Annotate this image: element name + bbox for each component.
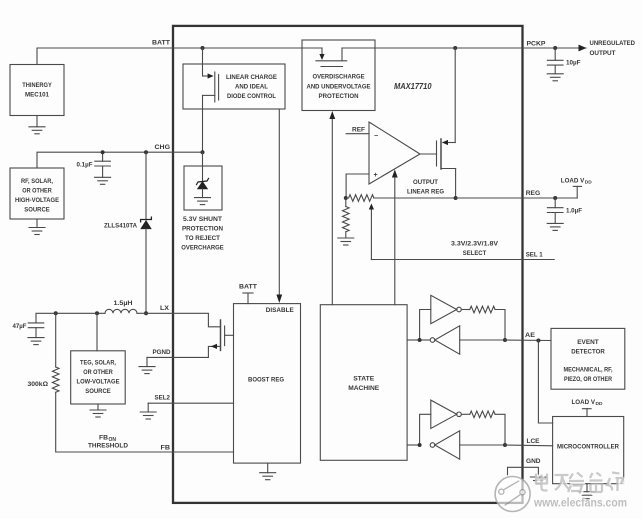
resistor R5 LCE feedback	[470, 411, 495, 418]
resistor R3 divider lower	[343, 207, 350, 232]
node LX-TEG junction	[95, 311, 99, 315]
block OVERDISCHARGE AND UNDERVOLTAGE PROTECTION	[302, 40, 375, 111]
svg-text:THRESHOLD: THRESHOLD	[88, 443, 128, 450]
source RF SOLAR HIGH-VOLTAGE	[10, 168, 64, 219]
svg-text:FB: FB	[99, 435, 108, 442]
node REG source junction	[454, 196, 458, 200]
svg-text:OR OTHER: OR OTHER	[22, 188, 52, 195]
svg-text:TEG, SOLAR,: TEG, SOLAR,	[80, 359, 116, 366]
svg-text:STATE: STATE	[353, 376, 374, 383]
svg-text:PROTECTION: PROTECTION	[319, 93, 359, 100]
wire PGND net	[147, 346, 218, 357]
svg-text:www.elecfans.com: www.elecfans.com	[533, 496, 627, 510]
wire REF input	[346, 133, 369, 135]
resistor R1 300k	[52, 367, 59, 392]
wire LCE net	[505, 444, 553, 447]
ground below R3	[338, 238, 354, 245]
source TEG SOLAR LOW-VOLTAGE	[71, 351, 126, 404]
node AE left junction	[418, 338, 422, 342]
wire state machine to op-amp enable	[392, 170, 398, 305]
svg-text:DD: DD	[596, 401, 603, 407]
svg-text:LOAD V: LOAD V	[561, 177, 585, 184]
wire AE net	[505, 339, 551, 342]
svg-text:OVERCHARGE: OVERCHARGE	[181, 245, 224, 252]
svg-text:SEL 1: SEL 1	[526, 252, 543, 259]
svg-text:LCE: LCE	[527, 438, 540, 445]
capacitor C2 47uF	[28, 323, 44, 328]
svg-text:AND UNDERVOLTAGE: AND UNDERVOLTAGE	[307, 84, 371, 91]
supply stub LOAD VDD at microcontroller	[582, 409, 591, 417]
ground below TEG	[90, 410, 106, 417]
node PCKP cap junction	[553, 46, 557, 50]
svg-text:AE: AE	[525, 332, 535, 339]
svg-text:SELECT: SELECT	[463, 250, 487, 257]
wire boost ground	[267, 463, 269, 473]
wire RF source to ground	[36, 219, 38, 228]
svg-text:47µF: 47µF	[13, 323, 27, 330]
node REG cap junction	[553, 196, 557, 200]
transistor Q3 output pass FET	[420, 48, 456, 198]
svg-text:BOOST REG: BOOST REG	[248, 377, 284, 384]
block 5.3V shunt protection box	[184, 166, 222, 210]
capacitor C3 10uF	[547, 60, 563, 65]
node PCKP drain junction	[453, 46, 457, 50]
svg-text:LINEAR REG: LINEAR REG	[407, 189, 444, 196]
svg-text:ZLLS410TA: ZLLS410TA	[104, 223, 137, 230]
block MICROCONTROLLER	[553, 417, 624, 484]
transistor Q4 boost FET	[173, 313, 234, 350]
ground at PGND	[139, 367, 155, 374]
svg-text:REG: REG	[526, 190, 541, 197]
svg-text:MACHINE: MACHINE	[348, 385, 379, 392]
transistor Q2 overdischarge FET	[302, 48, 375, 67]
svg-text:OR OTHER: OR OTHER	[83, 369, 113, 376]
svg-text:LINEAR CHARGE: LINEAR CHARGE	[226, 74, 277, 81]
wire C2 to ground	[35, 328, 37, 338]
svg-text:5.3V SHUNT: 5.3V SHUNT	[183, 216, 223, 223]
svg-text:0.1µF: 0.1µF	[77, 161, 93, 168]
transistor Q1 ideal diode FET	[203, 48, 219, 152]
ground below RF source	[29, 228, 45, 235]
svg-text:GND: GND	[526, 458, 541, 465]
block BOOST REG	[234, 304, 301, 464]
wire zener cathode	[145, 152, 147, 219]
svg-text:EVENT: EVENT	[577, 339, 599, 346]
svg-text:MEC101: MEC101	[25, 92, 49, 99]
wire PGND stub to ground	[146, 357, 148, 366]
svg-text:LOW-VOLTAGE: LOW-VOLTAGE	[77, 378, 120, 385]
wire REG net outside	[456, 197, 578, 199]
node BATT junction	[201, 46, 205, 50]
resistor R2 feedback pot	[349, 195, 374, 202]
capacitor C1 0.1uF	[95, 161, 111, 166]
wire zener anode to LX	[145, 229, 147, 313]
svg-text:CHG: CHG	[155, 144, 171, 151]
svg-text:1.5µH: 1.5µH	[114, 300, 133, 307]
svg-text:DISABLE: DISABLE	[266, 307, 294, 314]
wire C1 to ground	[102, 166, 104, 177]
wire DISABLE from linear charge	[276, 109, 282, 303]
wire SEL2 net	[148, 402, 233, 404]
svg-text:3.3V/2.3V/1.8V: 3.3V/2.3V/1.8V	[451, 240, 498, 247]
node AE right junction	[503, 338, 507, 342]
svg-text:OVERDISCHARGE: OVERDISCHARGE	[313, 73, 365, 80]
svg-text:MAX17710: MAX17710	[394, 82, 432, 91]
wiper arrow SEL1	[369, 204, 374, 260]
node LCE left junction	[418, 443, 422, 447]
diode D1 ZLLS410TA schottky	[141, 217, 152, 229]
node LX-zener junction	[144, 311, 148, 315]
svg-text:OUTPUT: OUTPUT	[413, 179, 439, 186]
IC outline MAX17710	[173, 26, 523, 503]
svg-text:1.0µF: 1.0µF	[566, 208, 582, 215]
svg-text:−: −	[374, 133, 378, 140]
ground below C3	[547, 74, 563, 81]
svg-text:AND IDEAL: AND IDEAL	[235, 84, 268, 91]
svg-text:FB: FB	[161, 444, 171, 451]
wire PCKP cap stub	[554, 48, 556, 60]
wire AE to microcontroller	[538, 341, 552, 424]
capacitor C1 0.1uF stub	[102, 152, 104, 161]
wire SEL2 stub to ground	[147, 403, 149, 412]
svg-text:SOURCE: SOURCE	[24, 207, 50, 214]
svg-text:LOAD V: LOAD V	[572, 399, 596, 406]
wire plus input	[346, 174, 369, 198]
block EVENT DETECTOR	[551, 328, 625, 389]
block LINEAR CHARGE AND IDEAL DIODE CONTROL	[183, 64, 285, 109]
svg-text:THINERGY: THINERGY	[22, 82, 52, 89]
svg-text:REF: REF	[352, 126, 365, 133]
svg-text:TO REJECT: TO REJECT	[185, 235, 221, 242]
inverter G2 reverse AE	[430, 326, 460, 354]
watermark elecfans	[495, 473, 628, 512]
wire state machine to overdischarge	[329, 111, 335, 305]
svg-text:SEL2: SEL2	[155, 395, 171, 402]
arrow unregulated output	[579, 45, 587, 52]
wire BATT net	[37, 48, 302, 65]
ground below boost reg	[260, 473, 276, 480]
wire THINERGY to ground	[36, 116, 38, 127]
wire AE inverter loop	[407, 310, 505, 341]
svg-text:SOURCE: SOURCE	[85, 388, 111, 395]
op-amp U1	[369, 122, 420, 184]
wire 300k top	[55, 313, 57, 367]
node CHG-C1 junction	[101, 150, 105, 154]
svg-text:PIEZO, OR OTHER: PIEZO, OR OTHER	[564, 376, 612, 383]
ground inside shunt box	[195, 198, 211, 205]
svg-text:PROTECTION: PROTECTION	[182, 226, 223, 233]
wire C4 to ground	[554, 213, 556, 224]
node AE outside junction	[536, 339, 540, 343]
wire LCE inverter loop	[407, 414, 505, 445]
node CHG shunt junction	[201, 150, 205, 154]
wire C3 to ground	[554, 65, 556, 74]
svg-text:RF, SOLAR,: RF, SOLAR,	[21, 178, 53, 185]
wire TEG to ground	[97, 404, 99, 410]
svg-text:MICROCONTROLLER: MICROCONTROLLER	[557, 443, 619, 450]
ground at GND pin	[530, 477, 546, 484]
svg-text:+: +	[374, 172, 378, 179]
svg-text:DIODE CONTROL: DIODE CONTROL	[227, 93, 276, 100]
ground below C2	[28, 338, 44, 345]
ground below C4	[547, 223, 563, 230]
node feedback junction	[344, 196, 348, 200]
capacitor C4 1.0uF	[547, 208, 563, 213]
wire GND pin bracket	[508, 467, 539, 477]
svg-text:UNREGULATED: UNREGULATED	[590, 40, 636, 47]
svg-text:PCKP: PCKP	[527, 40, 546, 47]
battery THINERGY MEC101	[10, 65, 64, 116]
svg-text:PGND: PGND	[153, 349, 171, 356]
svg-text:10µF: 10µF	[566, 60, 581, 67]
svg-text:LX: LX	[160, 305, 169, 312]
wire PCKP net	[375, 47, 586, 49]
wire LX net	[36, 313, 105, 323]
diode Z1 internal zener	[197, 179, 209, 190]
wire divider lower resistor	[345, 198, 347, 207]
wire REG net inside	[374, 197, 456, 199]
svg-text:300kΩ: 300kΩ	[28, 381, 49, 388]
wire TEG to LX	[96, 313, 98, 351]
supply stub LOAD VDD at REG	[573, 186, 581, 198]
svg-text:HIGH-VOLTAGE: HIGH-VOLTAGE	[15, 197, 59, 204]
wire R3 to ground	[345, 232, 347, 238]
pin stub BATT on boost reg	[243, 293, 253, 304]
svg-text:OUTPUT: OUTPUT	[590, 50, 617, 57]
inverter G4 reverse LCE	[430, 431, 460, 459]
ground below THINERGY	[29, 127, 45, 134]
svg-text:MECHANICAL, RF,: MECHANICAL, RF,	[564, 367, 613, 374]
wire zener to internal ground	[202, 189, 204, 198]
wire REG cap stub	[554, 198, 556, 208]
wire SEL1 net	[371, 259, 554, 261]
svg-text:BATT: BATT	[239, 284, 258, 291]
inverter G1 forward AE	[431, 295, 462, 323]
block STATE MACHINE	[320, 305, 407, 461]
wire shunt zener top	[202, 152, 204, 181]
wire 300k bottom to FB	[56, 392, 234, 452]
svg-text:BATT: BATT	[152, 40, 171, 47]
node CHG-zener junction	[144, 150, 148, 154]
resistor R4 AE feedback	[470, 306, 495, 313]
inductor L1 1.5uH	[105, 309, 137, 313]
wire microcontroller ground	[586, 484, 588, 492]
node LCE right junction	[503, 443, 507, 447]
node LX-300k junction	[54, 311, 58, 315]
wire CHG net	[37, 152, 203, 168]
svg-text:DETECTOR: DETECTOR	[571, 349, 605, 356]
inverter G3 forward LCE	[431, 400, 462, 428]
ground at SEL2	[140, 412, 156, 419]
svg-text:DD: DD	[585, 180, 592, 186]
ground below C1	[95, 177, 111, 184]
ground below microcontroller	[579, 492, 595, 499]
